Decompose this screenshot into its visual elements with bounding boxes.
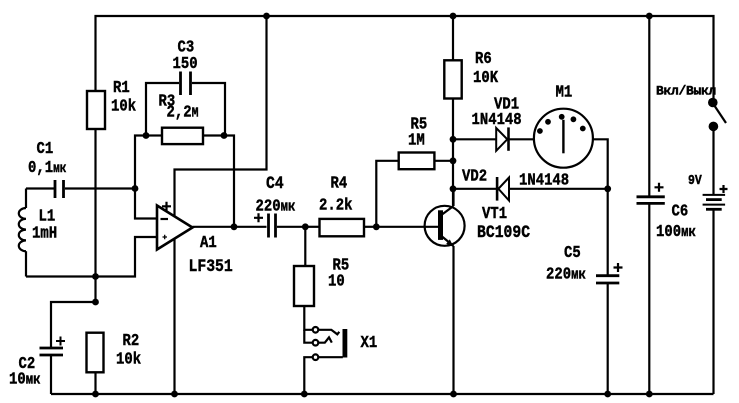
svg-text:R2: R2 [123,331,140,351]
svg-text:BC109C: BC109C [477,222,530,243]
svg-text:1M: 1M [408,130,425,150]
svg-text:M1: M1 [556,82,573,102]
node C4/R4/R5 [302,223,309,230]
svg-text:0,1мк: 0,1мк [28,158,66,178]
microphone M1 [534,82,593,167]
wire bottom rail [51,393,714,395]
node R2 top / C2 [92,299,99,306]
node R3 left [143,132,150,139]
wire opamp output [193,226,267,228]
capacitor C6 [637,16,696,394]
capacitor C4 [254,173,305,238]
resistor R3 [146,91,224,144]
resistor R2 [87,331,142,394]
node tank / feedback [132,185,139,192]
node R1/L1 bottom [92,273,99,280]
node output/feedback [231,223,238,230]
svg-text:1mH: 1mH [32,223,57,243]
node R4/R5-1M/base [373,223,380,230]
svg-text:10мк: 10мк [9,369,40,389]
node rail opamp [171,391,178,398]
wire M1 right to C5 branch [593,139,608,275]
resistor R4 [305,173,376,236]
svg-text:1N4148: 1N4148 [472,110,522,130]
capacitor C5 [546,243,623,394]
svg-text:VD2: VD2 [462,166,487,186]
switch Вкл/Выкл [656,83,726,195]
node rail C6 [646,391,653,398]
node rail R2 [92,391,99,398]
wire R3 left to inverting input [135,136,157,219]
wire R1 bottom to tank node [94,129,96,302]
resistor R5 1M [376,114,453,227]
svg-text:A1: A1 [200,233,217,253]
resistor R5 10 [294,227,349,306]
svg-text:100мк: 100мк [656,222,696,242]
wire opamp V- to ground rail [173,239,175,395]
jack X1 [304,306,377,394]
svg-text:R1: R1 [113,78,130,98]
node top rail / R6 [450,13,457,20]
wire feedback R3 right to output [224,136,234,227]
node top rail / C6 [646,13,653,20]
node R6/VD1 [450,136,457,143]
transistor VT1 [376,189,530,394]
svg-text:10k: 10k [116,349,141,369]
resistor R1 [87,78,136,129]
svg-text:2.2k: 2.2k [319,195,352,215]
svg-text:C4: C4 [266,173,284,194]
node top rail / opamp supply [263,13,270,20]
svg-text:R4: R4 [331,173,348,193]
svg-text:R6: R6 [475,49,492,69]
svg-text:X1: X1 [361,333,378,353]
wire tank bottom to non-inverting input [26,237,157,277]
svg-text:2,2M: 2,2M [167,102,199,122]
svg-text:VT1: VT1 [482,204,507,224]
inductor L1 [19,189,57,277]
svg-text:C5: C5 [564,243,581,263]
svg-text:9V: 9V [688,172,702,188]
svg-text:C6: C6 [672,201,689,221]
svg-text:220мк: 220мк [546,264,586,284]
node VD2/collector [450,185,457,192]
svg-text:1N4148: 1N4148 [519,170,569,190]
svg-text:10K: 10K [473,68,499,88]
svg-text:LF351: LF351 [189,256,233,277]
wire opamp V+ to top rail [175,16,267,217]
svg-text:150: 150 [173,54,198,74]
capacitor C1 [26,139,135,198]
node rail C5 [604,391,611,398]
resistor R6 [444,16,498,206]
svg-text:220мк: 220мк [256,196,296,216]
node rail X1 [301,391,308,398]
node R5-1M right [450,157,457,164]
op-amp A1 [157,202,233,277]
wire top rail [96,16,714,98]
svg-text:10k: 10k [111,96,136,116]
node rail emitter [450,391,457,398]
svg-text:Вкл/Выкл: Вкл/Выкл [656,83,716,98]
node R3 right [221,132,228,139]
diode VD2 [453,166,608,200]
node VD2 / M1 / C5 [604,185,611,192]
battery GB1 9V [688,172,728,394]
capacitor C2 [9,302,96,394]
svg-text:C1: C1 [37,139,54,159]
diode VD1 [453,94,534,151]
svg-text:10: 10 [328,271,345,291]
capacitor C3 [146,37,225,135]
